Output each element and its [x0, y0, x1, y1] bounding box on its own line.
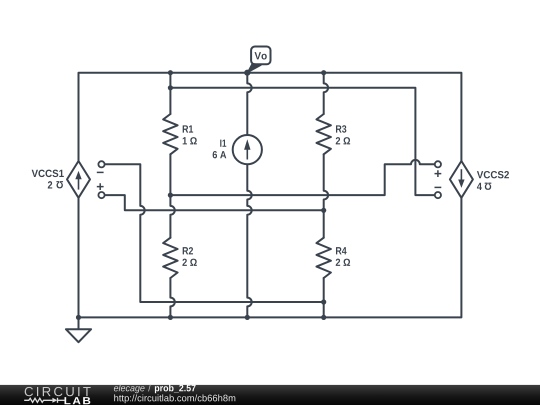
ground stub wire [78, 317, 80, 329]
VCCS2 label [477, 171, 509, 178]
junction dot second rail at R1 column [168, 85, 173, 90]
wire R3-R4 column middle segment with hop over y195 wire [324, 154, 328, 237]
node Vo flag box [251, 47, 270, 65]
wire left column below VCCS1 [78, 198, 80, 318]
resistor R1 zigzag [163, 114, 177, 154]
VCCS1 diamond body [67, 161, 90, 198]
R4 value 2 ohm [336, 259, 350, 266]
R3 value 2 ohm [336, 137, 350, 144]
footer logo resistor-diode squiggle [24, 398, 65, 403]
wire VCCS1 plus sense wire along y210 to R3-R4 column [105, 195, 324, 210]
VCCS1 minus sign [97, 171, 104, 173]
R2 label [183, 247, 193, 254]
wire R3 column upper segment with hop over second rail [324, 73, 328, 114]
R4 label [336, 247, 347, 254]
junction dot y195 wire at R1 column [168, 193, 173, 198]
wire R4 column lower segment [323, 278, 325, 317]
junction dot bottom rail at R4 column [321, 315, 326, 320]
junction dot bottom rail at ground [76, 315, 81, 320]
VCCS1 minus terminal pin [98, 161, 104, 167]
current source I1 circle [233, 135, 262, 164]
footer url [114, 394, 235, 403]
VCCS2 diamond body [450, 161, 473, 198]
wire VCCS2 plus control wire with hop over x415 wire [170, 160, 434, 195]
wire right column below VCCS2 and bottom rail [79, 198, 462, 318]
VCCS2 plus sign [435, 170, 442, 177]
VCCS2 value 4 mho [477, 183, 491, 190]
VCCS2 plus terminal pin [435, 161, 441, 167]
resistor R3 zigzag [317, 114, 331, 154]
footer title elecage [114, 384, 145, 393]
footer logo diode triangle [52, 398, 57, 403]
wire R1-R2 column middle segment with hop over y210 wire [170, 154, 174, 237]
wire second rail to VCCS2 minus terminal [170, 88, 434, 195]
node Vo flag tail [247, 63, 261, 73]
resistor R4 zigzag [317, 238, 331, 278]
VCCS1 arrow up [75, 171, 81, 190]
current source I1 arrow up [244, 139, 250, 159]
ground symbol [66, 329, 91, 342]
junction dot bottom rail at R2 column [168, 315, 173, 320]
VCCS1 label [32, 170, 64, 177]
footer title prob_2.57 [155, 384, 196, 393]
node Vo label text [255, 52, 267, 59]
I1 label [220, 140, 226, 147]
VCCS2 minus sign [435, 186, 442, 188]
wire I1 column upper segment with hop over second rail [247, 73, 251, 135]
wire R1 column upper segment [169, 73, 171, 114]
I1 value 6 A [213, 151, 227, 158]
junction dot y302 wire at R4 column [321, 299, 326, 304]
junction dot top rail at R1 column [168, 70, 173, 75]
wire VCCS1 minus sense wire down to R4 column [105, 164, 324, 302]
VCCS1 plus terminal pin [98, 192, 104, 198]
footer logo CIRCUIT [25, 387, 91, 396]
wire top rail with left and right risers [79, 73, 462, 161]
VCCS1 plus sign [97, 183, 104, 190]
footer title slash [148, 384, 151, 391]
VCCS2 arrow down [458, 169, 464, 188]
wire R2 column lower segment with hop over y302 wire [170, 278, 174, 317]
junction dot bottom rail at I1 column [245, 315, 250, 320]
junction dot y210 wire at R3-R4 column [321, 208, 326, 213]
R2 value 2 ohm [182, 259, 196, 266]
footer logo LAB [64, 397, 90, 404]
VCCS1 value 2 mho [48, 181, 63, 188]
resistor R2 zigzag [163, 238, 177, 278]
junction dot top rail at R3 column [321, 70, 326, 75]
R1 label [183, 125, 193, 132]
R3 label [336, 125, 346, 132]
VCCS2 minus terminal pin [435, 192, 441, 198]
node Vo junction dot [244, 70, 250, 76]
R1 value 1 ohm [183, 137, 197, 144]
wire I1 column lower segment with hops over y195 y210 y302 wires [247, 164, 251, 317]
footer bar [0, 385, 540, 405]
